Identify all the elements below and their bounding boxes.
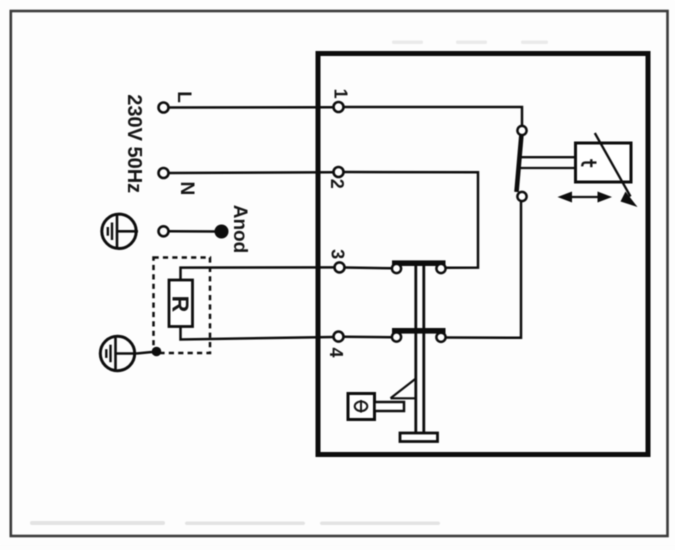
wire anode bbox=[169, 230, 216, 233]
contact lower right pin bbox=[436, 333, 445, 342]
svg-text:1: 1 bbox=[330, 89, 350, 99]
appliance enclosure box bbox=[318, 54, 648, 455]
svg-text:3: 3 bbox=[327, 249, 347, 259]
wire terminal 4 to contact bbox=[344, 336, 393, 339]
switch pivot bottom bbox=[517, 192, 526, 201]
contact lower left pin bbox=[392, 332, 401, 341]
contact bridge lower bar bbox=[392, 328, 446, 334]
wire resistor to terminal 3 bbox=[181, 267, 335, 280]
terminal 1 bbox=[334, 102, 344, 112]
wire lower contact to switch bbox=[446, 202, 521, 338]
terminal 4 bbox=[334, 332, 344, 342]
contact bridge upper bar bbox=[392, 260, 446, 266]
movement double arrow bbox=[558, 192, 613, 203]
svg-text:4: 4 bbox=[326, 347, 346, 357]
thermostat box U1 bbox=[576, 143, 632, 182]
label theta bbox=[355, 400, 368, 413]
dashed enclosure (heater) bbox=[154, 258, 211, 354]
terminal 2 bbox=[334, 167, 344, 177]
earth symbol lower bbox=[100, 336, 136, 370]
terminal N bbox=[159, 168, 169, 178]
thermostat adjust arrow diagonal bbox=[595, 133, 631, 197]
wire resistor to terminal 4 bbox=[181, 327, 334, 340]
actuator shaft right line bbox=[422, 263, 425, 434]
label t bbox=[582, 159, 596, 167]
svg-text:N: N bbox=[176, 182, 197, 196]
svg-text:230V 50Hz: 230V 50Hz bbox=[123, 94, 145, 193]
node anode dot bbox=[215, 225, 229, 239]
svg-text:R: R bbox=[168, 296, 194, 313]
wire earth to enclosure bbox=[137, 352, 153, 354]
terminal 3 bbox=[335, 262, 345, 272]
wire N to terminal 2 bbox=[169, 171, 334, 174]
wire terminal 3 to contact bbox=[345, 266, 393, 269]
sensor box theta bbox=[348, 394, 375, 420]
wire terminal 2 to upper contact bbox=[344, 172, 478, 268]
terminal L bbox=[159, 103, 169, 113]
contact upper right pin bbox=[436, 264, 445, 273]
actuator base plate bbox=[400, 433, 438, 442]
svg-text:L: L bbox=[173, 91, 194, 103]
sensor link rod bbox=[375, 402, 405, 411]
switch pivot top bbox=[517, 126, 526, 135]
switch blade bbox=[517, 134, 522, 192]
thermostat arrow head bbox=[621, 192, 638, 208]
lever horizontal bbox=[391, 397, 417, 399]
switch link upper line bbox=[520, 156, 576, 158]
svg-text:Anod: Anod bbox=[229, 205, 250, 254]
contact upper left pin bbox=[392, 264, 401, 273]
resistor R bbox=[169, 280, 193, 327]
wire L to terminal 1 bbox=[169, 106, 334, 109]
actuator shaft left line bbox=[414, 263, 417, 434]
switch link lower line bbox=[519, 167, 576, 169]
lever diagonal bbox=[391, 379, 416, 399]
terminal anode bbox=[159, 226, 169, 236]
svg-text:2: 2 bbox=[327, 179, 347, 189]
earth symbol upper bbox=[102, 214, 138, 248]
node earth dot bbox=[152, 347, 162, 357]
wire terminal 1 to switch bbox=[344, 107, 522, 126]
